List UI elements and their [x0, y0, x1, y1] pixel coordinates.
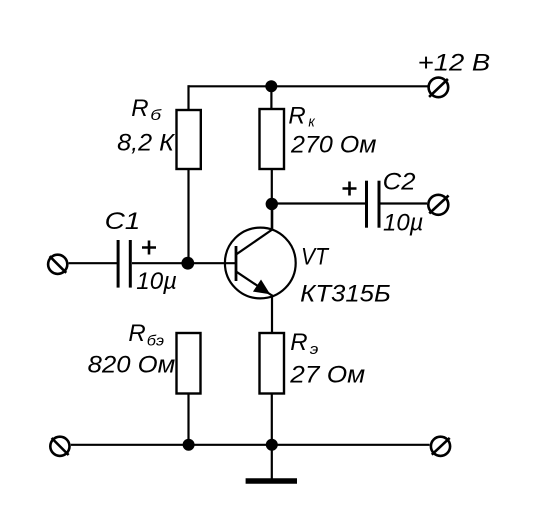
svg-text:10µ: 10µ [136, 268, 177, 295]
svg-text:R: R [288, 102, 305, 129]
resistor Rэ [260, 333, 285, 394]
label +12 В [418, 50, 491, 77]
svg-text:к: к [308, 114, 315, 131]
terminal +12V [429, 78, 449, 98]
svg-text:VT: VT [301, 244, 330, 271]
svg-text:C1: C1 [105, 208, 141, 235]
label Rк designator [288, 102, 315, 130]
wire collector vertical into transistor [271, 204, 273, 230]
label C1 value 10µ [136, 268, 177, 295]
terminal output [428, 195, 448, 215]
wire C1 to base [132, 262, 236, 264]
label Rк value 270 Ом [290, 131, 377, 158]
svg-text:270 Ом: 270 Ом [290, 131, 377, 158]
junction base node [181, 257, 194, 270]
svg-text:б: б [150, 107, 162, 124]
label VT designator [301, 244, 330, 271]
svg-text:820 Ом: 820 Ом [88, 352, 176, 379]
terminal bottom right [431, 437, 450, 456]
svg-text:8,2 К: 8,2 К [117, 129, 176, 156]
label Rб designator [131, 95, 162, 124]
label Rбэ value 820 Ом [88, 352, 176, 379]
svg-text:R: R [290, 329, 307, 356]
svg-text:C2: C2 [383, 168, 416, 195]
wire input terminal to C1 [69, 262, 118, 264]
junction collector node [266, 198, 278, 210]
svg-text:бэ: бэ [147, 332, 164, 349]
wire top supply rail [189, 85, 429, 87]
label Rэ value 27 Ом [289, 361, 365, 388]
wire collector node to C2 [272, 202, 365, 204]
label C2 polarity + [343, 182, 357, 196]
label C1 designator [105, 208, 141, 235]
label C2 designator [383, 168, 416, 195]
wire Rб top [187, 85, 189, 110]
junction bottom ground node [266, 439, 278, 451]
label VT type КТ315Б [300, 280, 391, 307]
capacitor C2 [367, 181, 380, 228]
svg-text:R: R [131, 95, 148, 122]
wire bottom rail [71, 444, 430, 446]
svg-text:э: э [310, 341, 319, 358]
wire Rэ bottom to ground rail [271, 394, 273, 445]
wire Rк top [270, 86, 272, 109]
wire C2 to output terminal [381, 202, 428, 204]
label C1 polarity + [142, 241, 156, 255]
svg-text:+12 В: +12 В [418, 50, 491, 77]
svg-text:10µ: 10µ [383, 209, 424, 236]
resistor Rб [177, 110, 201, 169]
svg-text:27 Ом: 27 Ом [289, 361, 365, 388]
label Rэ designator [290, 329, 318, 358]
terminal input [48, 255, 67, 274]
svg-text:КТ315Б: КТ315Б [300, 280, 391, 307]
label C2 value 10µ [383, 209, 424, 236]
resistor Rбэ [177, 333, 201, 394]
capacitor C1 [118, 240, 130, 288]
terminal bottom left [50, 437, 69, 456]
resistor Rк [260, 109, 285, 169]
junction top supply node [265, 80, 277, 92]
label Rбэ designator [128, 320, 164, 349]
transistor VT [225, 228, 296, 299]
junction bottom left node [183, 439, 195, 451]
ground [246, 445, 297, 481]
svg-text:R: R [128, 320, 145, 347]
wire Rк bottom to collector node [271, 169, 273, 231]
label Rб value 8,2 К [117, 129, 176, 156]
wire emitter to Rэ [271, 295, 273, 334]
wire Rбэ bottom to ground rail [187, 394, 189, 445]
wire Rб bottom to base node [187, 169, 189, 263]
